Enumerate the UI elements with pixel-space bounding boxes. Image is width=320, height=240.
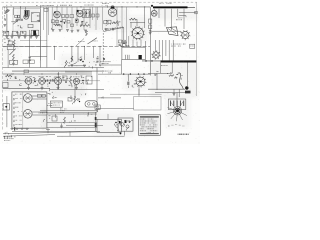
svg-text:+6: +6 [101,96,105,100]
